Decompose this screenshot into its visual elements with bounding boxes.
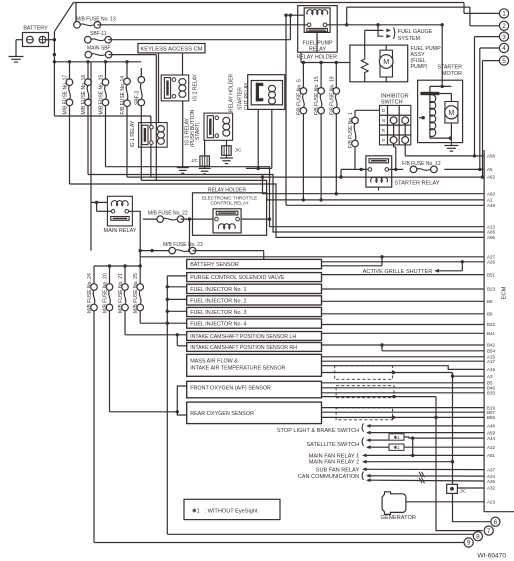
starter motor unit: [418, 80, 463, 145]
svg-text:✱1 : WITHOUT EyeSight: ✱1 : WITHOUT EyeSight: [192, 507, 258, 514]
svg-text:A17: A17: [487, 359, 496, 364]
wire inhibitor P output 1: [394, 144, 398, 172]
svg-text:IG 1 RELAY: IG 1 RELAY: [130, 120, 136, 148]
wire front oxygen shield drain: [322, 395, 437, 398]
fuse M/B FUSE No. 13: [74, 3, 309, 29]
wire battery sensor output to A27 bus: [322, 255, 384, 266]
svg-text:SATELLITE SWITCH: SATELLITE SWITCH: [306, 442, 359, 448]
svg-text:B42: B42: [487, 343, 496, 348]
switch INHIBITOR SWITCH: [380, 93, 411, 144]
svg-text:ECM: ECM: [502, 286, 508, 299]
svg-text:M/B FUSE No. 23: M/B FUSE No. 23: [163, 242, 203, 248]
svg-text:MAIN RELAY: MAIN RELAY: [104, 228, 137, 234]
wire injector1 output B23: [322, 288, 485, 290]
sensor box FUEL INJECTOR No. 3: [187, 307, 322, 316]
switch STOP LIGHT & BRAKE SWITCH: [277, 423, 484, 434]
svg-text:✱1: ✱1: [393, 445, 400, 450]
wire fuel pump relay output bus: [327, 23, 442, 26]
svg-text:J/C: J/C: [191, 158, 199, 163]
node fuse 15 tap: [104, 60, 107, 63]
svg-text:7: 7: [487, 528, 491, 535]
wire fuse16 bus to A65: [88, 175, 484, 233]
svg-text:A22: A22: [487, 445, 496, 450]
fuse M/B FUSE No. 23: [140, 242, 203, 254]
svg-text:M: M: [383, 57, 389, 66]
sensor box INTAKE CAMSHAFT POSITION SENSOR LH: [187, 332, 322, 341]
wire front oxygen output B33: [322, 392, 485, 394]
wire bus to circle 8: [167, 533, 473, 535]
wire SBF-11 branch to A49: [284, 14, 484, 206]
note box WITHOUT EyeSight: [184, 499, 280, 519]
fuse SBF-11: [85, 31, 291, 43]
relay STARTER RELAY: [366, 156, 440, 187]
wire oxygen sensor bus: [177, 386, 186, 415]
wire riser to circle 5: [483, 61, 500, 178]
junction J/C bottom right: [447, 484, 466, 493]
svg-text:START): START): [195, 122, 201, 140]
svg-text:STARTER: STARTER: [237, 87, 243, 110]
wire J/C left to ground: [204, 166, 206, 168]
svg-text:D: D: [382, 108, 385, 113]
wire generator to A23: [406, 501, 484, 503]
wire keyless access CM output 1: [158, 53, 160, 123]
svg-text:FUEL INJECTOR No. 4: FUEL INJECTOR No. 4: [190, 321, 246, 327]
svg-text:A62: A62: [487, 174, 496, 179]
svg-text:CONTROL RELAY: CONTROL RELAY: [210, 201, 248, 206]
svg-text:A37: A37: [487, 468, 496, 473]
svg-text:9: 9: [467, 540, 471, 547]
svg-text:F/B FUSE No. 14: F/B FUSE No. 14: [120, 76, 126, 115]
connector circle 7: [484, 526, 493, 535]
node fuse 16 tap: [86, 60, 89, 63]
svg-text:STARTER RELAY: STARTER RELAY: [394, 181, 439, 187]
ECM pin labels: [487, 154, 496, 505]
wire rear oxygen shield drain: [392, 416, 395, 419]
wire A27 bus from main relay: [140, 256, 484, 258]
svg-text:CAN COMMUNICATION: CAN COMMUNICATION: [298, 474, 359, 480]
svg-text:A44: A44: [487, 436, 496, 441]
node battery feed junction SBF-11: [53, 38, 56, 41]
fuse SBF-3: [134, 68, 144, 180]
wire MAF shielded output A3: [322, 371, 485, 376]
svg-text:PURGE CONTROL SOLENOID VALVE: PURGE CONTROL SOLENOID VALVE: [190, 275, 285, 281]
wire MAIN SBF drop to IG relays: [155, 55, 157, 181]
wire purge valve feed: [167, 275, 186, 277]
svg-text:SBF-11: SBF-11: [90, 31, 107, 37]
fuse M/B FUSE No. 16: [81, 62, 91, 175]
node fuse 14 tap: [125, 60, 128, 63]
svg-text:A23: A23: [487, 500, 496, 505]
svg-text:M/B FUSE No. 13: M/B FUSE No. 13: [76, 16, 116, 22]
svg-text:F/B FUSE No. 15: F/B FUSE No. 15: [314, 76, 320, 115]
svg-text:IG 2 RELAY: IG 2 RELAY: [193, 73, 199, 101]
wire bus2 drop: [346, 7, 348, 25]
label FUEL GAUGE SYSTEM: [398, 29, 433, 42]
svg-text:B9: B9: [487, 312, 493, 317]
ground G5 (starter motor): [444, 146, 458, 152]
svg-text:SBF-3: SBF-3: [134, 91, 140, 105]
svg-text:FUEL INJECTOR No. 3: FUEL INJECTOR No. 3: [190, 310, 246, 316]
wire fuse24 to bottom bus / circle 9: [94, 542, 464, 544]
svg-text:M/B FUSE No. 17: M/B FUSE No. 17: [63, 75, 69, 115]
wire starter motor feed: [430, 23, 452, 86]
fuse M/B FUSE No. 21: [118, 266, 128, 335]
device GENERATOR: [381, 492, 417, 521]
shield dashed box rear oxygen: [336, 408, 393, 420]
wire top bus line 2: [347, 6, 470, 8]
fuse M/B FUSE No. 24: [87, 266, 97, 543]
wire fuse20 to rear oxygen bus: [110, 410, 180, 413]
svg-text:REAR OXYGEN SENSOR: REAR OXYGEN SENSOR: [190, 411, 254, 417]
svg-text:INTAKE CAMSHAFT POSITION SENSO: INTAKE CAMSHAFT POSITION SENSOR RH: [190, 345, 297, 351]
svg-text:M: M: [448, 108, 454, 117]
junction J/C left: [191, 156, 209, 166]
wire J/C to circle 6: [453, 493, 491, 521]
svg-text:RELAY HOLDER: RELAY HOLDER: [296, 55, 337, 61]
wire rear oxygen output B56: [322, 416, 485, 418]
svg-text:A25: A25: [487, 479, 496, 484]
sensor box PURGE CONTROL SOLENOID VALVE: [187, 273, 322, 282]
svg-text:B33: B33: [487, 391, 496, 396]
note box *1 (satellite lower): [389, 444, 484, 450]
svg-text:6: 6: [494, 519, 498, 526]
wire fuse22 junction drop: [188, 219, 191, 252]
wire starter relay coil to A63 riser: [378, 187, 380, 190]
svg-text:N: N: [382, 118, 385, 123]
wire CAN COMMUNICATION: [298, 472, 484, 484]
svg-text:A58: A58: [487, 154, 496, 159]
connector circle 2: [499, 21, 508, 30]
node battery feed junction MAIN SBF: [53, 53, 56, 56]
fuse M/B FUSE No. 15: [99, 62, 109, 167]
svg-text:3: 3: [502, 34, 506, 41]
svg-text:MAIN SBF: MAIN SBF: [87, 46, 111, 52]
svg-text:MOTOR: MOTOR: [442, 71, 462, 77]
svg-text:A5: A5: [487, 167, 493, 172]
svg-text:ELECTRONIC THROTTLE: ELECTRONIC THROTTLE: [202, 195, 257, 200]
svg-text:4: 4: [502, 45, 506, 52]
battery B1: [23, 26, 49, 47]
wire ETC relay output: [241, 217, 271, 220]
svg-text:STOP LIGHT & BRAKE SWITCH: STOP LIGHT & BRAKE SWITCH: [277, 428, 359, 434]
wire main relay output: [129, 211, 142, 267]
svg-text:B22: B22: [487, 322, 496, 327]
svg-text:PUMP): PUMP): [411, 64, 428, 70]
wire riser to circle 3: [475, 37, 500, 156]
wire MAF output A17: [322, 360, 485, 362]
wire main relay feed: [91, 201, 111, 212]
module KEYLESS ACCESS CM: [138, 44, 205, 53]
svg-text:FRONT OXYGEN (A/F) SENSOR: FRONT OXYGEN (A/F) SENSOR: [190, 385, 271, 391]
fuse F/B FUSE No. 5: [296, 61, 306, 115]
relay holder FUEL PUMP RELAY: [296, 6, 337, 61]
svg-text:M/B FUSE No. 20: M/B FUSE No. 20: [103, 273, 109, 313]
connector circle 8: [473, 532, 482, 541]
sensor box BATTERY SENSOR: [187, 259, 322, 268]
wire diagonal feed to top bus: [54, 3, 73, 32]
wire battery bus drop to IG1 relay: [54, 62, 150, 177]
svg-text:M/B FUSE No. 16: M/B FUSE No. 16: [81, 75, 87, 115]
connector circle 3: [499, 32, 508, 41]
svg-text:F/B FUSE No. 5: F/B FUSE No. 5: [296, 79, 302, 115]
ground G3 (J/C left): [199, 168, 211, 174]
fuse F/B FUSE No. 1: [348, 110, 380, 169]
wire riser to circle 1: [464, 3, 499, 14]
sensor box MASS AIR FLOW & INTAKE AIR TEMPERATURE SENSOR: [187, 354, 322, 376]
svg-text:1: 1: [502, 11, 506, 18]
junction J/C right: [222, 146, 242, 156]
relay wire MAIN FAN RELAY 1: [309, 436, 484, 459]
wire starter cut relay to starter relay line: [257, 109, 260, 170]
connector circle 5: [499, 56, 508, 65]
svg-text:BATTERY: BATTERY: [23, 26, 48, 32]
svg-text:MASS AIR FLOW &: MASS AIR FLOW &: [190, 358, 238, 364]
wire fuel pump relay contact drop: [316, 32, 318, 53]
node fuse 17 tap: [68, 60, 71, 63]
svg-text:B23: B23: [487, 287, 496, 292]
svg-text:✱1: ✱1: [393, 435, 400, 440]
svg-text:P: P: [382, 138, 385, 143]
svg-text:A63: A63: [487, 191, 496, 196]
svg-text:A16: A16: [487, 367, 496, 372]
svg-text:B56: B56: [487, 415, 496, 420]
fuse F/B FUSE No. 12: [402, 161, 441, 173]
sensor box REAR OXYGEN SENSOR: [187, 402, 322, 424]
wire fuse row bus lower: [94, 264, 140, 267]
wire front oxygen output B46: [322, 387, 485, 389]
wire battery sensor output A26: [322, 260, 485, 263]
svg-text:FUEL GAUGE: FUEL GAUGE: [398, 29, 433, 35]
svg-text:F/B FUSE No. 12: F/B FUSE No. 12: [402, 161, 441, 167]
wire F/B fuse feed bus: [301, 52, 350, 62]
label STARTER MOTOR: [437, 65, 462, 78]
wire injector1 feed: [167, 286, 186, 288]
wire SBF-11 output drop to fuel pump relay: [289, 14, 305, 40]
svg-text:M/B FUSE No. 21: M/B FUSE No. 21: [118, 273, 124, 313]
svg-text:GENERATOR: GENERATOR: [381, 515, 417, 521]
fuse F/B FUSE No. 19: [329, 61, 339, 196]
wire MAF output A15: [322, 356, 485, 358]
svg-text:ACTIVE GRILLE SHUTTER: ACTIVE GRILLE SHUTTER: [363, 269, 433, 275]
svg-text:M/B FUSE No. 24: M/B FUSE No. 24: [87, 273, 93, 313]
svg-text:M/B FUSE No. 25: M/B FUSE No. 25: [133, 273, 139, 313]
wire front oxygen output B5: [322, 382, 485, 384]
wire starter cut relay coil drop: [246, 109, 272, 168]
wire MAF output A16: [322, 366, 485, 370]
device FUEL PUMP ASSY (fuel pump + sender): [350, 45, 441, 82]
wire keyless access CM output 2: [182, 53, 184, 75]
svg-text:8: 8: [476, 533, 480, 540]
svg-text:MAIN FAN RELAY 1: MAIN FAN RELAY 1: [309, 453, 359, 459]
fuse MAIN SBF: [85, 46, 156, 58]
svg-text:INTAKE CAMSHAFT POSITION SENSO: INTAKE CAMSHAFT POSITION SENSOR LH: [190, 334, 296, 340]
svg-text:5: 5: [502, 58, 506, 65]
sensor box INTAKE CAMSHAFT POSITION SENSOR RH: [187, 343, 322, 352]
svg-text:M/B FUSE No. 22: M/B FUSE No. 22: [148, 210, 188, 216]
wire active grille shutter arrow: [363, 262, 463, 275]
wire A63 riser: [261, 175, 484, 193]
svg-text:A13: A13: [487, 224, 496, 229]
relay MAIN RELAY: [104, 196, 137, 234]
svg-text:M/B FUSE No. 15: M/B FUSE No. 15: [99, 75, 105, 115]
wire J/C right to ground: [226, 155, 228, 158]
svg-text:A48: A48: [487, 424, 496, 429]
wire camshaft bus vertical: [177, 335, 186, 346]
wire J/C to A32: [457, 487, 484, 489]
wire injector2 feed: [167, 298, 186, 300]
fuse M/B FUSE No. 22: [143, 210, 213, 222]
svg-text:RELAY HOLDER: RELAY HOLDER: [229, 73, 235, 112]
wire fuse14 bus / A62 line: [127, 175, 484, 178]
svg-text:B51: B51: [487, 272, 496, 277]
svg-text:CUT RELAY: CUT RELAY: [244, 82, 250, 110]
wire battery negative to ground: [16, 40, 23, 57]
svg-text:SWITCH: SWITCH: [381, 100, 403, 106]
svg-text:B54: B54: [487, 349, 496, 354]
svg-text:A51: A51: [487, 453, 496, 458]
node battery feed junction fuse row: [53, 60, 56, 63]
wire purge valve output B51: [322, 274, 485, 276]
svg-text:J/C: J/C: [460, 489, 467, 494]
svg-text:A24: A24: [487, 474, 496, 479]
wire main feed vertical: [53, 32, 55, 62]
wire fuse21 to camshaft bus: [125, 333, 187, 336]
wire fuse25 to injector bus: [140, 322, 187, 324]
fuse F/B FUSE No. 14: [120, 62, 130, 177]
shield dashed box front oxygen: [336, 386, 394, 398]
wire camshaft RH output B42: [322, 343, 485, 346]
wire shield drain vertical to circle 6: [451, 373, 454, 485]
fuse M/B FUSE No. 20: [103, 266, 113, 412]
wire fuse23 tail to battery sensor: [193, 251, 264, 260]
connector circle 1: [499, 9, 508, 18]
wire injector3 output B9: [322, 313, 485, 315]
wire SBF-3 bus to A2: [141, 180, 484, 200]
switch SATELLITE SWITCH: [306, 438, 389, 450]
wire inhibitor N-P internal links: [394, 124, 406, 137]
wire rear oxygen output B57: [322, 411, 485, 413]
wire PBS relay to J/C right: [226, 140, 228, 146]
wire top bus line 1: [73, 2, 464, 4]
fuse F/B FUSE No. 15: [314, 61, 324, 202]
svg-text:F/B FUSE No. 19: F/B FUSE No. 19: [329, 76, 335, 115]
wire left bus to fuse 23: [90, 62, 92, 251]
ground G1 (battery): [9, 57, 24, 63]
relay holder STARTER CUT RELAY: [229, 73, 285, 112]
wire PBS relay to J/C left: [204, 140, 206, 156]
sensor box FRONT OXYGEN (A/F) SENSOR: [187, 381, 322, 398]
wire injector4 output B22: [322, 324, 485, 326]
wire fuse17 bus to A66: [70, 184, 485, 237]
wire fuel gauge feeds: [365, 25, 395, 57]
wire rear oxygen output B19: [322, 407, 485, 409]
svg-text:STARTER: STARTER: [437, 65, 462, 71]
ground G4 (J/C right): [220, 158, 233, 164]
svg-text:A59: A59: [487, 430, 496, 435]
svg-text:FUEL INJECTOR No. 2: FUEL INJECTOR No. 2: [190, 298, 246, 304]
relay IG 2 RELAY: [161, 73, 198, 101]
wire fuse-row bus: [54, 61, 141, 63]
relay wire MAIN FAN RELAY 2: [309, 460, 454, 466]
svg-text:R: R: [382, 128, 385, 133]
relay IG 1 RELAY: [130, 120, 167, 148]
svg-text:SYSTEM: SYSTEM: [398, 36, 421, 42]
svg-text:INTAKE AIR TEMPERATURE SENSOR: INTAKE AIR TEMPERATURE SENSOR: [190, 365, 285, 371]
wire B54 tap from B42: [382, 345, 484, 351]
svg-text:A65: A65: [487, 230, 496, 235]
wire injector supply bus: [166, 276, 169, 534]
relay holder ELECTRONIC THROTTLE CONTROL RELAY: [193, 187, 267, 235]
wire battery positive to feed bus: [46, 39, 54, 41]
wire injector2 output B8: [322, 300, 485, 302]
svg-text:B8: B8: [487, 299, 493, 304]
label WI-60470: [477, 553, 506, 560]
svg-text:A32: A32: [487, 486, 496, 491]
connector circle 6: [491, 517, 500, 526]
wire IG2 relay coil to ground: [182, 101, 184, 168]
wire camshaft LH output B41: [322, 332, 485, 334]
svg-text:INHIBITOR: INHIBITOR: [381, 93, 409, 99]
wire shield drain vertical to circle 7: [434, 397, 482, 531]
connector circle 9: [464, 538, 473, 547]
svg-text:SUB FAN RELAY: SUB FAN RELAY: [316, 467, 360, 473]
svg-text:A2: A2: [487, 198, 493, 203]
svg-text:J/C: J/C: [235, 148, 243, 153]
svg-text:B41: B41: [487, 331, 496, 336]
svg-text:A66: A66: [487, 235, 496, 240]
wire starter relay line A5: [341, 168, 484, 171]
fuse M/B FUSE No. 25: [133, 266, 143, 323]
ground G2 (IG relay): [177, 168, 189, 174]
wire riser to circle 2: [470, 7, 500, 26]
wire riser to circle 4: [480, 48, 500, 169]
sensor box FUEL INJECTOR No. 4: [187, 319, 322, 328]
sensor box FUEL INJECTOR No. 2: [187, 296, 322, 305]
svg-text:RELAY: RELAY: [309, 46, 326, 52]
svg-text:A26: A26: [487, 260, 496, 265]
wire starter relay left drop to A62 bus: [339, 169, 342, 178]
sensor box FUEL INJECTOR No. 1: [187, 284, 322, 293]
ECM boundary: [484, 150, 514, 512]
svg-text:BATTERY SENSOR: BATTERY SENSOR: [190, 262, 239, 268]
svg-text:KEYLESS ACCESS CM: KEYLESS ACCESS CM: [140, 47, 202, 53]
note box *1 (satellite upper): [389, 434, 484, 440]
shield dashed box MAF: [335, 366, 393, 380]
relay wire SUB FAN RELAY: [316, 467, 484, 473]
svg-text:F/B FUSE No. 1: F/B FUSE No. 1: [348, 112, 354, 148]
svg-text:WI-60470: WI-60470: [477, 553, 506, 560]
svg-text:MAIN FAN RELAY 2: MAIN FAN RELAY 2: [309, 460, 359, 466]
svg-text:A3: A3: [487, 374, 493, 379]
fuse M/B FUSE No. 17: [63, 62, 73, 184]
svg-text:2: 2: [502, 23, 506, 30]
wire inhibitor P output 2 to A58: [405, 144, 484, 158]
wire fuse5 column to A2 line: [302, 114, 305, 202]
svg-text:A49: A49: [487, 203, 496, 208]
wire fuse15 bus to A13: [106, 167, 485, 227]
wire injector3 feed: [167, 310, 186, 312]
svg-text:FUEL INJECTOR No. 1: FUEL INJECTOR No. 1: [190, 287, 246, 293]
relay IG 1 RELAY (PUSH BUTTON START): [185, 109, 233, 147]
connector circle 4: [499, 43, 508, 52]
